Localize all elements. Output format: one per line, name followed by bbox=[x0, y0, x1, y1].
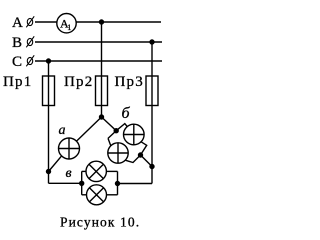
svg-text:б: б bbox=[122, 105, 131, 122]
node T bbox=[114, 129, 118, 133]
wire: J2 to node T bbox=[102, 117, 117, 131]
wire: left drop bottom corner to lamp v left bar bbox=[49, 182, 82, 184]
node on left bar bbox=[80, 181, 84, 185]
wire: lamp b2 exit to V to node B bbox=[125, 155, 140, 163]
wire: right drop from B bbox=[151, 42, 153, 184]
terminal A bbox=[26, 16, 34, 27]
node on right bar bbox=[116, 182, 120, 186]
svg-text:А: А bbox=[12, 15, 23, 31]
wire: right bar to right drop corner bbox=[118, 183, 153, 185]
node on left drop bbox=[47, 170, 51, 174]
svg-text:В: В bbox=[12, 35, 22, 51]
wire: lamp b1 exit to peak to node B bbox=[141, 142, 147, 155]
wire bbox=[76, 21, 161, 23]
wire: right bar bbox=[117, 171, 119, 194]
fuse Pr3 bbox=[146, 76, 158, 106]
svg-text:1: 1 bbox=[67, 23, 71, 32]
fuse Pr1 bbox=[43, 76, 55, 106]
lamp b2 bbox=[108, 143, 128, 163]
wire stubs right bbox=[106, 170, 117, 172]
wire bbox=[35, 60, 162, 62]
lamp v2 bbox=[87, 185, 107, 205]
wire: node B to right drop bbox=[141, 155, 153, 167]
lamp a bbox=[59, 123, 80, 159]
terminal C bbox=[26, 55, 34, 66]
wire bbox=[35, 21, 57, 23]
svg-text:С: С bbox=[12, 54, 22, 70]
wire: middle drop from A bbox=[101, 22, 103, 117]
terminal B bbox=[26, 36, 34, 47]
node on C line bbox=[47, 59, 51, 63]
wire: T to lamp b1 bbox=[116, 124, 127, 131]
fuse Pr2 bbox=[96, 76, 108, 106]
svg-text:Рисунок 10.: Рисунок 10. bbox=[60, 215, 140, 230]
wire: J2 to lamp a bbox=[76, 117, 101, 141]
node J2 bottom of Pr2 drop bbox=[100, 115, 104, 119]
svg-text:в: в bbox=[66, 166, 72, 181]
node on A line bbox=[100, 20, 104, 24]
lamp b1 bbox=[122, 105, 145, 145]
node B bbox=[139, 153, 143, 157]
wire: T to corner K bbox=[108, 131, 116, 139]
wire stubs left bbox=[82, 170, 87, 172]
wire bbox=[35, 41, 162, 43]
svg-text:Пр1: Пр1 bbox=[3, 74, 32, 90]
ammeter A1 bbox=[57, 14, 76, 33]
svg-text:а: а bbox=[59, 123, 66, 138]
wire: left drop from C bbox=[48, 61, 50, 183]
node on B line bbox=[150, 40, 154, 44]
svg-text:Пр3: Пр3 bbox=[115, 74, 144, 90]
wire: lamp a to left drop bbox=[49, 156, 62, 172]
lamp v1 bbox=[66, 161, 107, 181]
wire: left bar bbox=[81, 171, 83, 194]
svg-text:Пр2: Пр2 bbox=[64, 74, 93, 90]
node on right drop bbox=[150, 165, 154, 169]
wire: K to lamp b2 bbox=[108, 138, 111, 145]
